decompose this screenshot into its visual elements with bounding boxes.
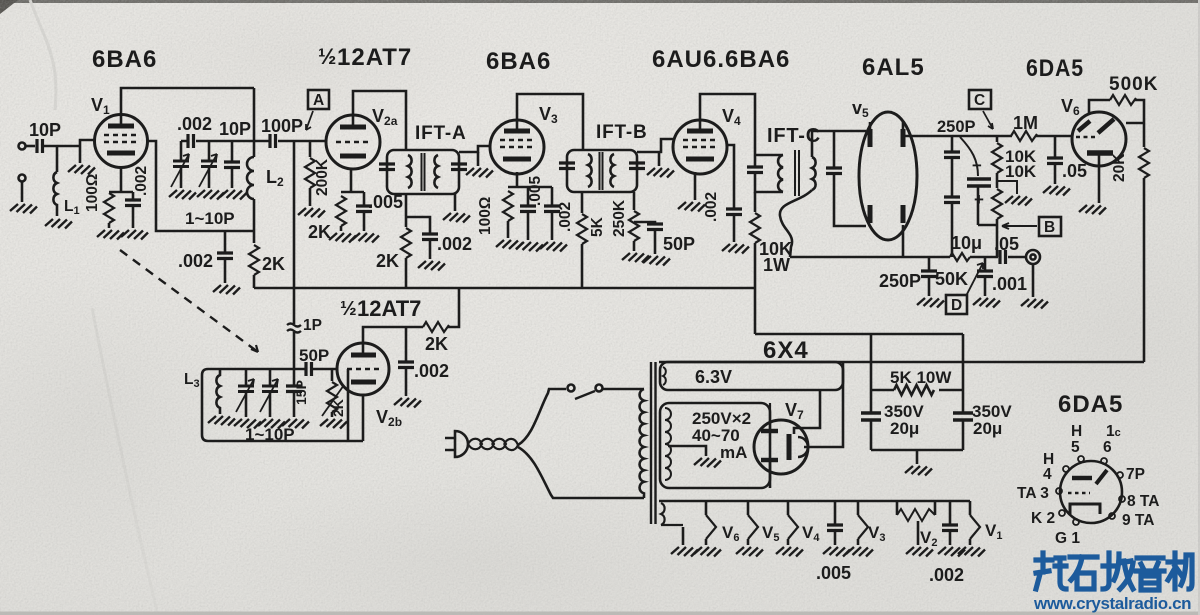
ground	[213, 285, 240, 295]
tube V2a half 12AT7 envelope	[326, 115, 380, 169]
svg-text:250P: 250P	[879, 271, 921, 291]
watermark char ji	[1168, 553, 1192, 589]
svg-text:C: C	[974, 92, 985, 109]
watermark char shi	[1070, 557, 1097, 589]
resistor 5K 10W	[871, 385, 963, 395]
svg-text:10K: 10K	[1005, 162, 1037, 181]
capacitor .002 V4	[726, 209, 742, 215]
resistor 10K first	[996, 136, 999, 142]
HV winding coil	[665, 408, 671, 480]
ground	[823, 547, 850, 557]
wire	[293, 332, 296, 369]
node C arrow	[983, 111, 993, 129]
B+ bus	[254, 287, 755, 290]
filter bottom wire	[871, 449, 963, 452]
capacitor .05 output	[1000, 250, 1006, 264]
svg-text:.05: .05	[994, 234, 1019, 254]
ground	[45, 219, 72, 229]
wire to bus	[448, 288, 459, 327]
capacitor .05 V6 grid	[1054, 136, 1057, 157]
svg-text:200K: 200K	[314, 158, 331, 196]
B+ rail horizontal	[659, 361, 1144, 364]
wire V6 cathode	[1098, 155, 1101, 203]
tube V2b plate	[351, 353, 376, 358]
ground	[220, 190, 247, 200]
ground	[298, 208, 325, 218]
output jack	[1026, 250, 1040, 264]
capacitor 15P	[293, 369, 296, 385]
capacitor .002 V3	[551, 187, 554, 205]
ground	[394, 398, 421, 408]
ground	[916, 450, 919, 464]
svg-text:2K: 2K	[330, 399, 346, 417]
wire V1 g2 to tuning box	[147, 141, 254, 231]
ground	[234, 419, 261, 429]
svg-text:10P: 10P	[29, 120, 61, 140]
tube V7 plates	[761, 403, 778, 431]
ground	[917, 298, 944, 308]
resistor 2K V2a cathode	[336, 196, 346, 226]
IFT-B primary coil	[588, 154, 592, 187]
HV winding box 250V	[660, 403, 770, 488]
oscillator grid line	[208, 368, 337, 371]
tube V2b cathode	[351, 380, 376, 385]
capacitor 50P	[634, 222, 655, 223]
resistor 1M	[1011, 131, 1037, 141]
tube V3 grids	[500, 140, 534, 147]
svg-text:A: A	[313, 92, 324, 109]
wire V1 plate to top rail	[121, 88, 254, 115]
svg-text:12AT7: 12AT7	[357, 296, 421, 321]
heater V1	[969, 501, 972, 515]
svg-text:K 2: K 2	[1031, 510, 1055, 527]
tube V4 grids	[683, 140, 717, 147]
capacitor 10P input	[37, 139, 43, 153]
svg-text:IFT-A: IFT-A	[415, 123, 467, 144]
IFT-A core	[422, 153, 425, 191]
svg-text:4: 4	[1043, 466, 1052, 483]
resistor 2K V2a plate decoupling	[401, 228, 411, 258]
ground heater winding	[682, 527, 685, 545]
wire 2K to B bus	[253, 275, 256, 288]
trimmer capacitor 2 of 1~10P	[208, 141, 211, 160]
ground	[694, 547, 721, 557]
ground	[722, 244, 749, 254]
wire top rail down to L2	[253, 88, 256, 157]
tube V7 6X4 envelope	[754, 420, 808, 474]
svg-text:½: ½	[340, 298, 357, 320]
capacitor .005 heater	[834, 501, 837, 524]
svg-text:.005: .005	[527, 175, 544, 206]
resistor 2K osc grid	[331, 369, 334, 381]
wire node to L1	[56, 146, 59, 172]
tube V4 6AU6 envelope	[673, 120, 727, 174]
capacitor 250P IF filter top	[951, 136, 954, 151]
ground	[1021, 299, 1048, 309]
tube V2a cathode	[340, 154, 366, 159]
transformer T1 primary coil	[640, 389, 644, 498]
HV center tap	[668, 446, 706, 456]
svg-text:9 TA: 9 TA	[1122, 512, 1154, 529]
ground	[10, 204, 37, 214]
svg-text:5K: 5K	[589, 216, 606, 237]
svg-text:www.crystalradio.cn: www.crystalradio.cn	[1033, 594, 1191, 613]
svg-text:6DA5: 6DA5	[1026, 55, 1084, 82]
ground	[79, 146, 82, 163]
tube V7 cathode	[798, 437, 808, 457]
watermark char kuang	[1036, 553, 1066, 589]
tube V3 plate	[504, 129, 530, 134]
trimmer capacitor 1 osc	[245, 369, 248, 385]
wire AVC line vertical	[293, 141, 296, 324]
ground	[258, 419, 285, 429]
ground stub 10K	[997, 181, 1017, 194]
node A arrow	[306, 111, 313, 130]
capacitor .002 heater	[949, 501, 952, 524]
heater V4	[787, 501, 790, 515]
IFT-B secondary coil	[610, 154, 614, 187]
svg-text:H: H	[1071, 423, 1082, 440]
antenna terminal 2	[19, 175, 26, 182]
6.3V winding coil	[663, 367, 666, 385]
svg-text:8 TA: 8 TA	[1127, 493, 1159, 510]
wire IFT-B primary bottom	[581, 192, 584, 213]
svg-text:1~10P: 1~10P	[185, 209, 235, 228]
svg-text:.002: .002	[133, 166, 150, 196]
svg-text:10P: 10P	[219, 119, 251, 139]
tube V2b half 12AT7 envelope	[337, 343, 389, 395]
svg-text:½: ½	[318, 44, 336, 69]
svg-text:6X4: 6X4	[763, 337, 809, 364]
svg-text:1W: 1W	[763, 255, 790, 275]
6DA5 base internals	[1072, 476, 1092, 481]
wire	[21, 181, 24, 202]
svg-text:.002: .002	[929, 565, 964, 585]
svg-text:12AT7: 12AT7	[337, 44, 412, 71]
svg-text:G 1: G 1	[1055, 530, 1080, 547]
wire to jack	[1008, 256, 1026, 259]
ground V4 grid stub	[658, 152, 661, 166]
ground	[958, 547, 985, 557]
svg-text:10μ: 10μ	[951, 233, 982, 253]
resistor 100 ohm V1 cathode	[104, 193, 114, 223]
tube V7 heater	[787, 434, 792, 460]
svg-text:IFT-B: IFT-B	[596, 122, 648, 143]
svg-text:100P: 100P	[261, 116, 303, 136]
svg-text:.002: .002	[177, 114, 212, 134]
svg-text:mA: mA	[720, 443, 747, 462]
svg-text:50P: 50P	[299, 346, 329, 365]
svg-text:20μ: 20μ	[973, 419, 1002, 438]
ground	[496, 240, 523, 250]
svg-text:.005: .005	[816, 563, 851, 583]
heater V2 hum pot	[897, 501, 935, 515]
capacitor 10P padder	[231, 141, 234, 161]
ground	[1079, 205, 1106, 215]
IFT-B core	[600, 152, 603, 190]
tube V4 cathode	[686, 157, 714, 162]
svg-text:1M: 1M	[1013, 113, 1038, 133]
svg-text:2K: 2K	[376, 251, 399, 271]
IFT-A transformer box	[387, 150, 459, 194]
svg-text:500K: 500K	[1109, 74, 1158, 95]
AC cord twists	[468, 439, 518, 450]
wire 1M to V6 grid	[1036, 135, 1072, 138]
wire 6.3V to V7 heater	[794, 390, 820, 434]
power switch	[568, 385, 575, 392]
svg-text:.002: .002	[437, 234, 472, 254]
wire V4 g3	[726, 145, 734, 208]
IFT-C core	[795, 150, 799, 196]
wire	[25, 145, 35, 148]
wire cord lower to transformer	[518, 447, 644, 498]
svg-text:6BA6: 6BA6	[92, 46, 157, 73]
6.3V winding box	[660, 362, 843, 390]
wire V6 feedback loop	[1089, 100, 1110, 113]
wire V7 cathode to B+	[804, 362, 843, 447]
svg-text:B: B	[1044, 219, 1055, 236]
wire V5 lower plate down	[902, 225, 905, 257]
ground	[329, 233, 356, 243]
tube V6 internals	[1078, 121, 1090, 131]
tube V3 cathode	[503, 157, 531, 162]
capacitor 250P det	[928, 257, 931, 270]
resistor 5K screen	[577, 214, 587, 244]
ground	[906, 547, 933, 557]
IFT-A primary capacitor	[379, 164, 395, 170]
svg-text:.002: .002	[557, 202, 574, 232]
inductor L1	[53, 172, 57, 216]
electrolytic capacitor 10u	[967, 179, 991, 186]
capacitor .002 osc plate	[405, 327, 408, 361]
resistor 2K V2b plate	[423, 322, 449, 332]
ground	[197, 190, 224, 200]
svg-text:TA 3: TA 3	[1017, 485, 1049, 502]
svg-text:250P: 250P	[937, 118, 976, 136]
wire jack ground	[1032, 264, 1035, 297]
tube V2a grid	[336, 141, 370, 144]
capacitor .002 V1 cathode	[132, 192, 135, 199]
svg-text:+: +	[974, 190, 984, 209]
IFT-A secondary coil	[434, 155, 438, 188]
heater bus	[659, 500, 970, 503]
capacitor 50P osc	[306, 362, 312, 376]
svg-text:.001: .001	[992, 274, 1027, 294]
ground	[352, 233, 379, 243]
wire V3 plate to IFT-B	[517, 94, 583, 150]
capacitor .002 osc	[224, 231, 227, 252]
capacitor 100P coupling	[270, 134, 276, 148]
IFT-B secondary capacitor	[629, 163, 645, 169]
ground	[776, 547, 803, 557]
ground	[846, 547, 873, 557]
tube V1 6BA6 envelope	[95, 115, 148, 168]
wire V6 plate	[1126, 122, 1144, 125]
svg-text:15P: 15P	[293, 380, 309, 405]
wire screen rail	[755, 333, 963, 336]
inductor L3	[216, 369, 220, 414]
svg-text:6BA6: 6BA6	[486, 48, 551, 75]
ground	[208, 416, 235, 426]
svg-text:6AU6.6BA6: 6AU6.6BA6	[652, 46, 790, 73]
wire IFT-A to V3 grid	[459, 146, 491, 152]
node B callout box	[1039, 217, 1061, 236]
heater V3	[857, 501, 860, 515]
svg-text:100Ω: 100Ω	[84, 174, 101, 212]
wire	[108, 223, 111, 228]
watermark char shou	[1103, 553, 1133, 589]
resistor 10K second	[996, 173, 999, 188]
trimmer capacitor 2 osc	[269, 369, 272, 385]
wire	[43, 140, 94, 146]
ground	[540, 242, 567, 252]
wire V2a cathode	[341, 168, 364, 192]
heater V5	[747, 501, 750, 515]
svg-text:7P: 7P	[1126, 466, 1145, 483]
wire IFT-B to V4 grid	[637, 139, 674, 152]
svg-text:.002: .002	[414, 361, 449, 381]
tube V3 6BA6 envelope	[490, 120, 544, 174]
capacitor .005 V2a cathode	[363, 192, 366, 205]
capacitor .002 decoupling	[406, 217, 430, 233]
IFT-B transformer box	[567, 150, 637, 192]
svg-text:50P: 50P	[663, 234, 695, 254]
ground	[1043, 186, 1070, 196]
wire grid line	[181, 140, 269, 143]
volume pot arrow	[966, 263, 983, 296]
svg-text:.005: .005	[368, 192, 403, 212]
ground	[418, 261, 445, 271]
tube V1 plate	[108, 124, 134, 129]
ground	[169, 190, 196, 200]
ground	[736, 547, 763, 557]
svg-text:1~10P: 1~10P	[245, 425, 295, 444]
node D callout box	[946, 295, 967, 314]
IFT-A primary coil	[408, 155, 412, 188]
wire V2b cathode to box	[362, 395, 365, 441]
wire	[253, 199, 256, 243]
antenna terminal 1	[19, 143, 26, 150]
svg-text:2K: 2K	[425, 334, 448, 354]
wire V4 cathode	[694, 172, 697, 200]
tube V2a plate	[340, 125, 366, 130]
AC plug body	[445, 438, 455, 450]
osc grid pot arrow	[322, 385, 344, 416]
capacitor 1P	[287, 324, 301, 333]
svg-text:1P: 1P	[303, 317, 322, 334]
ground	[516, 242, 543, 252]
svg-text:D: D	[951, 297, 962, 314]
ground	[694, 458, 721, 468]
watermark char yin	[1136, 558, 1164, 590]
resistor 200K grid	[309, 141, 312, 157]
IFT-C secondary capacitor line	[833, 131, 836, 167]
wire IFT-A primary bottom to 2K	[405, 194, 408, 227]
svg-text:.002: .002	[178, 251, 213, 271]
resistor 250K AVC	[629, 211, 639, 241]
svg-text:6.3V: 6.3V	[695, 367, 732, 387]
svg-text:2K: 2K	[262, 254, 285, 274]
tube V5 diode plates	[868, 129, 873, 147]
capacitor IF filter lower	[951, 158, 954, 196]
svg-text:50K: 50K	[935, 269, 968, 289]
IFT-C primary coil	[778, 155, 783, 192]
svg-text:IFT-C: IFT-C	[767, 125, 821, 147]
wire plate load down to B+	[1143, 178, 1146, 362]
IFT-A secondary capacitor	[451, 164, 467, 170]
tube V6 6DA5 envelope	[1072, 112, 1126, 166]
resistor 20K	[1143, 123, 1146, 147]
L3 box	[202, 369, 363, 441]
wire V1 cathode down	[109, 167, 133, 192]
svg-text:−: −	[972, 156, 982, 175]
ground	[938, 547, 965, 557]
IFT-B primary capacitor	[559, 163, 575, 169]
ground	[622, 253, 649, 263]
filter node wires	[871, 334, 963, 450]
svg-text:100Ω: 100Ω	[477, 197, 494, 235]
resistor 100 ohm V3 cathode	[503, 191, 513, 221]
IFT-C primary capacitor	[747, 167, 763, 173]
wire to B arrow node	[978, 224, 997, 227]
IFT-C secondary coil	[812, 157, 816, 190]
ground	[973, 298, 1000, 308]
tube V4 plate	[687, 129, 713, 134]
tube V2b grid	[347, 368, 380, 371]
ground	[282, 419, 309, 429]
wire curved crossing	[960, 137, 978, 176]
inductor L2	[247, 157, 254, 199]
resistor 500K feedback	[1110, 95, 1136, 105]
trimmer capacitor 1 of 1~10P	[180, 141, 183, 160]
wire to V2a grid	[278, 140, 326, 143]
node B arrow	[1002, 225, 1037, 227]
capacitor .002 on grid line	[188, 134, 194, 148]
ground	[643, 256, 670, 266]
electrolytic 350V 20u second	[953, 413, 973, 420]
svg-text:.002: .002	[703, 192, 720, 222]
svg-text:5: 5	[1071, 439, 1080, 456]
wire	[970, 256, 998, 259]
tube V1 grids	[104, 135, 138, 142]
capacitor .001	[984, 257, 987, 270]
ground	[121, 230, 148, 240]
ground	[320, 419, 347, 429]
wire switch to transformer	[603, 388, 644, 391]
svg-text:6AL5: 6AL5	[862, 54, 925, 81]
IFT-C primary wires	[755, 155, 783, 192]
svg-text:6DA5: 6DA5	[1058, 391, 1123, 418]
svg-text:.05: .05	[1062, 161, 1087, 181]
wire V2b plate	[363, 327, 423, 344]
svg-text:2K: 2K	[308, 222, 331, 242]
wire IFT-B secondary bottom to 250K	[633, 192, 636, 210]
svg-text:20K: 20K	[1111, 153, 1128, 182]
ground	[678, 202, 705, 212]
svg-text:5K 10W: 5K 10W	[890, 368, 952, 387]
tube V5 6AL5 envelope	[859, 112, 917, 240]
transformer T1 core	[651, 362, 656, 524]
wire IFT-C secondary bottom hook	[780, 190, 812, 257]
heater V6	[705, 501, 708, 515]
node C callout box	[969, 90, 991, 109]
wire detector line	[790, 256, 950, 259]
svg-text:6: 6	[1103, 439, 1112, 456]
6DA5 base circle	[1060, 461, 1122, 523]
wire IFT-C secondary top	[812, 131, 866, 157]
node A callout box	[308, 90, 329, 109]
capacitor .005 V3	[527, 187, 530, 205]
